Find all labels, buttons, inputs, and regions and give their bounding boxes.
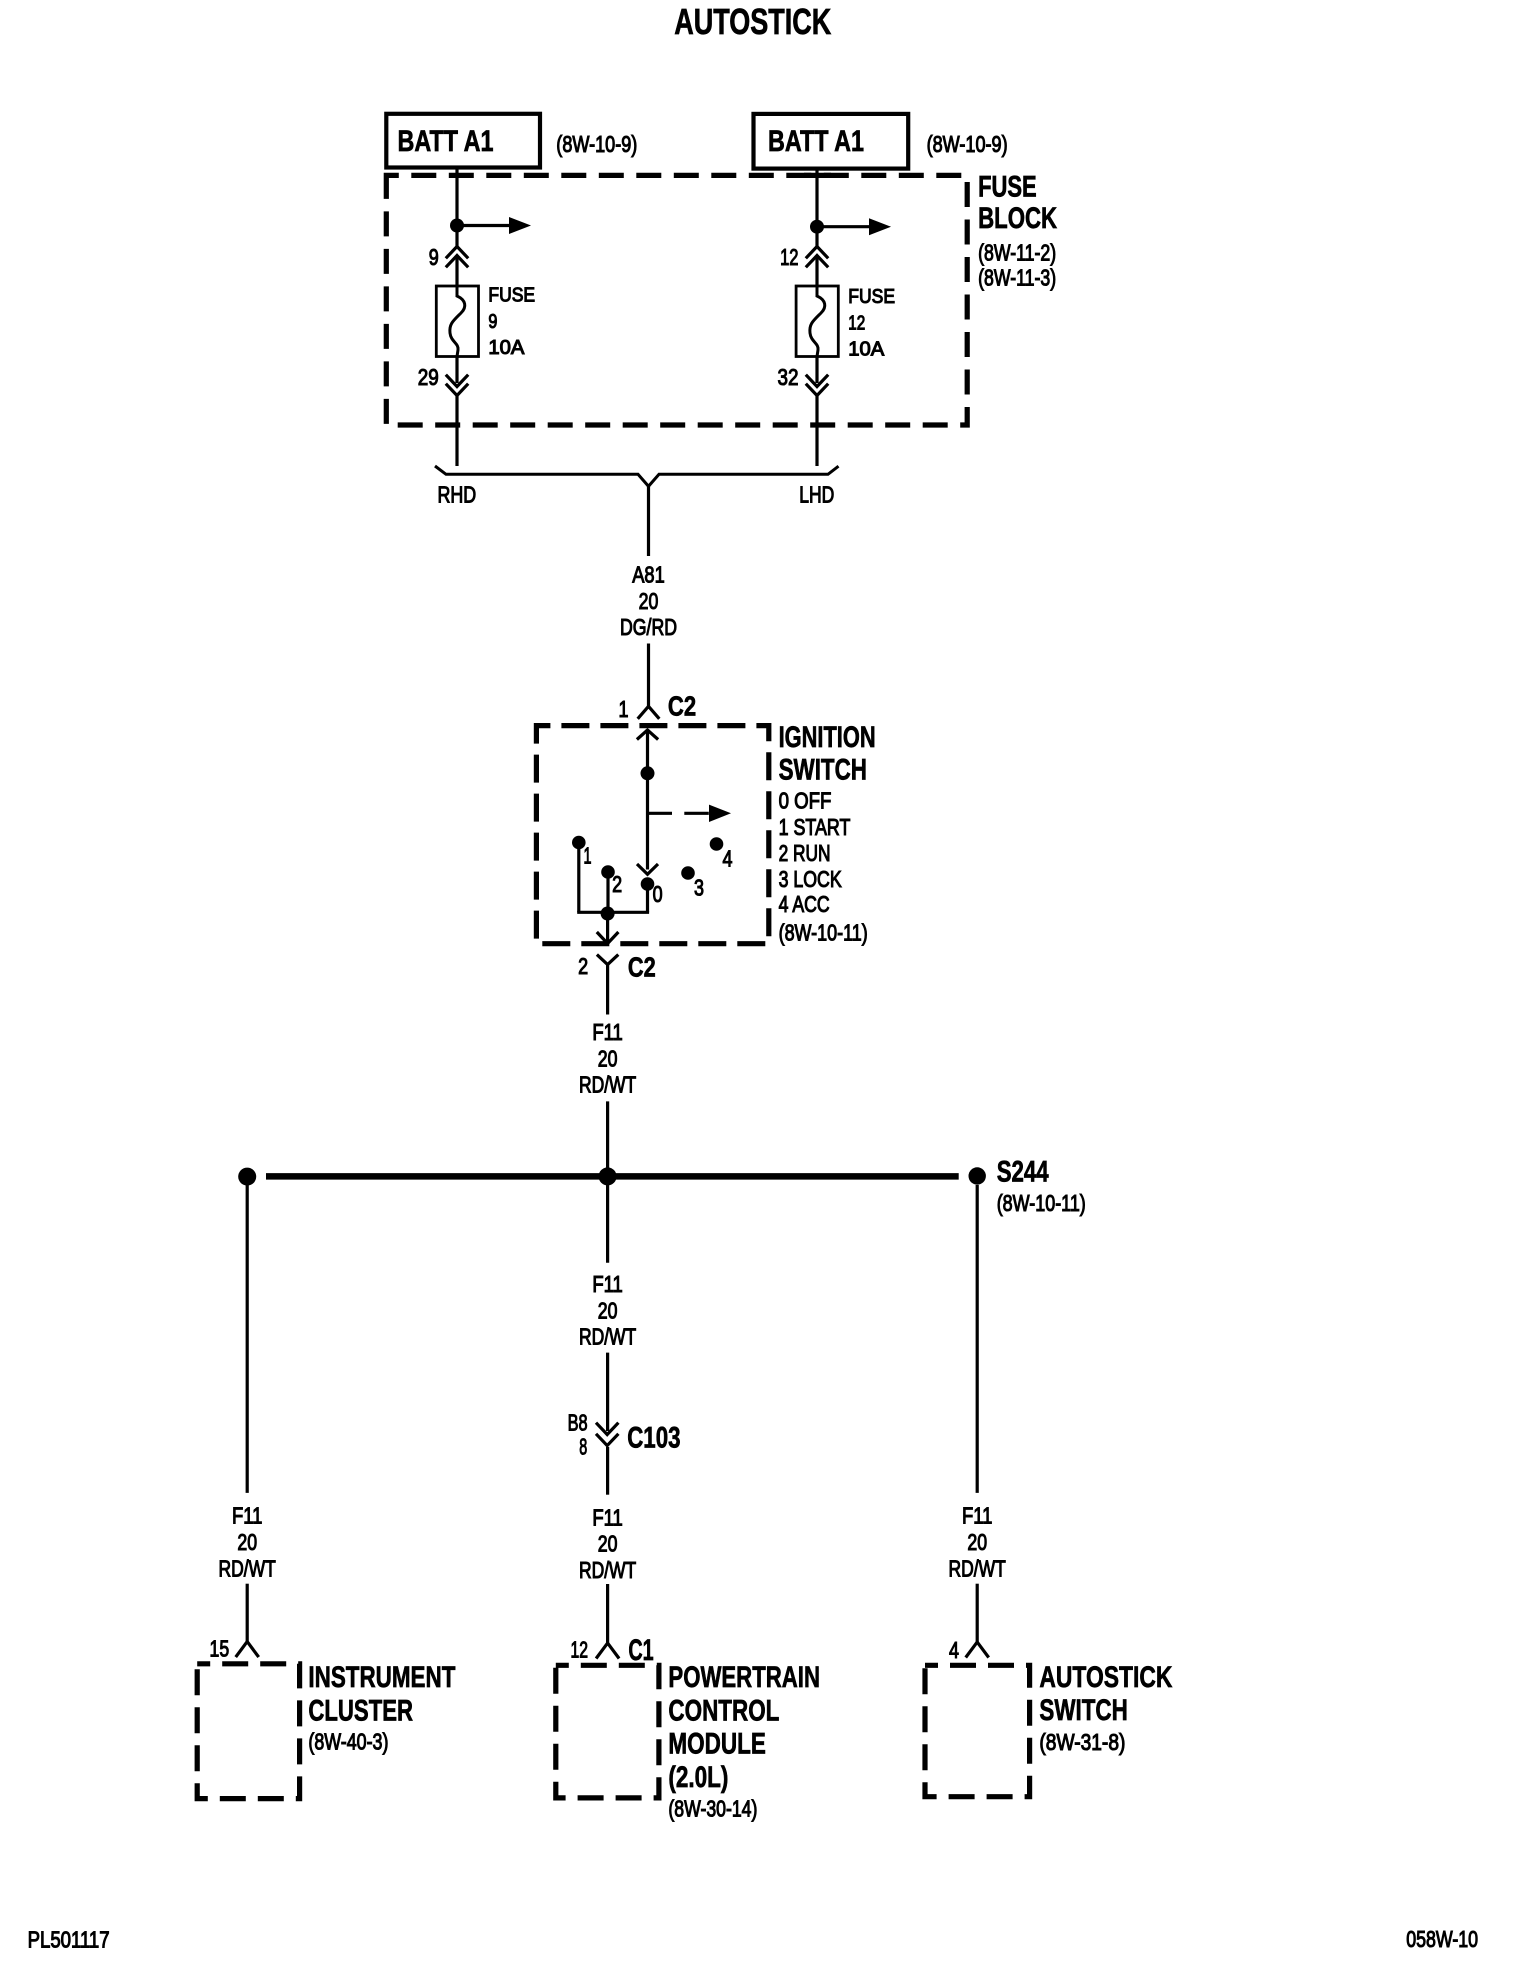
node ignition feed — [641, 766, 655, 780]
svg-text:10A: 10A — [488, 337, 525, 359]
wire brace to A81 — [647, 486, 650, 556]
svg-text:FUSE: FUSE — [978, 171, 1037, 204]
svg-text:12: 12 — [780, 244, 798, 270]
node junction right — [810, 220, 824, 234]
svg-text:RD/WT: RD/WT — [949, 1555, 1006, 1581]
svg-text:20: 20 — [598, 1045, 618, 1071]
connector chevrons pin 29 — [446, 375, 468, 387]
svg-text:3 LOCK: 3 LOCK — [779, 866, 843, 892]
svg-text:RD/WT: RD/WT — [579, 1072, 636, 1098]
connector fork pin 15 — [236, 1642, 259, 1658]
svg-text:3: 3 — [694, 875, 704, 901]
svg-text:20: 20 — [639, 588, 659, 614]
svg-text:(2.0L): (2.0L) — [668, 1761, 728, 1794]
svg-text:2 RUN: 2 RUN — [779, 840, 831, 866]
connector chevrons pin 32 — [806, 375, 828, 387]
connector C2 pin 2 fork — [597, 955, 618, 965]
svg-text:DG/RD: DG/RD — [620, 614, 677, 640]
wiper direction dashed arrow — [648, 812, 712, 815]
svg-text:S244: S244 — [997, 1155, 1049, 1188]
svg-text:(8W-10-11): (8W-10-11) — [997, 1190, 1086, 1216]
svg-text:8: 8 — [579, 1433, 587, 1459]
wire BATT A1 right to fuse 12 — [815, 169, 818, 246]
contact 3 — [681, 866, 695, 880]
autostick switch outline — [925, 1665, 1030, 1796]
wire to pin 12 C1 — [606, 1584, 609, 1643]
svg-text:FUSE: FUSE — [848, 286, 895, 308]
wire switch output bus — [577, 911, 649, 914]
wire fuse 9 to brace — [455, 357, 458, 384]
contact 1 — [572, 836, 586, 850]
connector fork pin 4 — [966, 1642, 989, 1658]
battery feed box BATT A1 (right) — [754, 114, 909, 169]
svg-text:LHD: LHD — [799, 482, 834, 508]
svg-text:10A: 10A — [848, 339, 885, 361]
svg-text:F11: F11 — [232, 1503, 263, 1529]
svg-text:(8W-40-3): (8W-40-3) — [308, 1728, 388, 1754]
svg-text:CONTROL: CONTROL — [668, 1694, 779, 1727]
wire contact 0 down — [646, 884, 649, 912]
svg-text:12: 12 — [848, 312, 865, 334]
svg-text:(8W-11-2): (8W-11-2) — [978, 239, 1056, 265]
svg-text:20: 20 — [237, 1529, 257, 1555]
connector C2 pin2 exit arrow — [606, 914, 609, 942]
wire contact 2 down — [606, 872, 609, 912]
svg-text:058W-10: 058W-10 — [1406, 1926, 1478, 1952]
fuse F9 body — [436, 286, 478, 357]
battery feed box BATT A1 (left) — [386, 114, 540, 168]
svg-text:F11: F11 — [592, 1504, 623, 1530]
wire BATT A1 left to fuse 9 — [455, 168, 458, 247]
svg-text:1: 1 — [584, 843, 592, 869]
svg-text:2: 2 — [612, 871, 622, 897]
wire fuse 12 to brace — [815, 357, 818, 384]
svg-text:(8W-31-8): (8W-31-8) — [1039, 1729, 1125, 1755]
svg-text:IGNITION: IGNITION — [779, 721, 876, 754]
wire F11 to splice S244 — [606, 1101, 609, 1173]
svg-text:C2: C2 — [628, 952, 656, 983]
svg-text:BATT A1: BATT A1 — [768, 125, 864, 158]
node splice left — [238, 1168, 256, 1186]
wire ignition feed — [646, 729, 649, 870]
wire to connector C103 — [606, 1353, 609, 1431]
svg-text:0: 0 — [653, 881, 663, 907]
connector fork pin 12 C1 — [596, 1643, 619, 1659]
svg-text:BLOCK: BLOCK — [978, 202, 1057, 235]
svg-text:32: 32 — [778, 364, 799, 390]
wire to pin 15 — [246, 1584, 249, 1642]
svg-text:F11: F11 — [962, 1503, 993, 1529]
svg-text:4: 4 — [949, 1637, 959, 1663]
svg-text:B8: B8 — [568, 1409, 588, 1435]
fuse block outline — [386, 175, 967, 425]
powertrain control module outline — [556, 1665, 659, 1798]
svg-text:(8W-11-3): (8W-11-3) — [978, 265, 1056, 291]
ignition switch outline — [536, 726, 768, 944]
wire splice to C103 — [606, 1176, 609, 1262]
svg-text:RHD: RHD — [438, 482, 477, 508]
connector chevrons pin 9 — [446, 247, 468, 259]
wire A81 to connector C2 — [647, 644, 650, 707]
svg-text:SWITCH: SWITCH — [1039, 1694, 1127, 1727]
connector C2 pin1 entry arrow — [637, 730, 658, 740]
svg-text:20: 20 — [967, 1529, 987, 1555]
svg-text:F11: F11 — [592, 1019, 623, 1045]
svg-text:A81: A81 — [632, 562, 665, 588]
instrument cluster outline — [197, 1664, 299, 1799]
svg-text:C103: C103 — [627, 1421, 680, 1454]
wire to pin 4 — [976, 1584, 979, 1642]
svg-text:CLUSTER: CLUSTER — [308, 1694, 413, 1727]
connector chevrons pin 12 — [806, 247, 828, 259]
svg-text:PL501117: PL501117 — [28, 1926, 110, 1952]
svg-text:4 ACC: 4 ACC — [779, 891, 830, 917]
svg-text:0 OFF: 0 OFF — [779, 788, 832, 814]
arrow tap left — [457, 224, 511, 227]
svg-text:4: 4 — [723, 845, 733, 871]
svg-text:AUTOSTICK: AUTOSTICK — [1039, 1661, 1172, 1694]
svg-text:9: 9 — [488, 311, 497, 333]
connector C2 pin 1 fork — [638, 706, 660, 719]
wiper arrowhead to contact 0 — [637, 864, 658, 874]
fuse F12 element — [810, 286, 825, 357]
svg-text:1: 1 — [619, 696, 629, 722]
fuse F9 element — [450, 286, 465, 357]
brace RHD/LHD — [435, 466, 839, 486]
svg-text:12: 12 — [571, 1637, 589, 1663]
svg-text:15: 15 — [210, 1635, 230, 1661]
contact 2 — [601, 865, 615, 879]
svg-text:MODULE: MODULE — [668, 1728, 766, 1761]
svg-text:RD/WT: RD/WT — [219, 1555, 276, 1581]
splice bus S244 — [266, 1173, 959, 1180]
fuse F12 body — [796, 286, 838, 357]
svg-text:C2: C2 — [668, 690, 696, 721]
contact 0 — [641, 877, 655, 891]
svg-text:RD/WT: RD/WT — [579, 1324, 636, 1350]
arrow tap right — [817, 225, 871, 228]
node junction left — [450, 219, 464, 233]
wire contact 1 down — [577, 843, 580, 913]
svg-text:SWITCH: SWITCH — [779, 753, 867, 786]
svg-text:1 START: 1 START — [779, 814, 851, 840]
node splice S244 — [969, 1167, 986, 1184]
svg-text:BATT A1: BATT A1 — [398, 125, 494, 158]
connector C103 chevrons — [596, 1423, 618, 1435]
svg-text:2: 2 — [578, 953, 588, 979]
node switch output — [601, 907, 615, 921]
wire splice to autostick switch — [976, 1185, 979, 1493]
svg-text:(8W-10-11): (8W-10-11) — [779, 919, 868, 945]
svg-text:INSTRUMENT: INSTRUMENT — [308, 1661, 455, 1694]
svg-text:(8W-10-9): (8W-10-9) — [927, 131, 1008, 157]
svg-text:RD/WT: RD/WT — [579, 1557, 636, 1583]
svg-text:C1: C1 — [628, 1634, 653, 1667]
svg-text:AUTOSTICK: AUTOSTICK — [674, 1, 831, 42]
node splice center — [599, 1167, 617, 1185]
wire C2 to F11 label — [606, 965, 609, 1015]
svg-text:29: 29 — [418, 364, 439, 390]
svg-text:20: 20 — [598, 1531, 618, 1557]
wire splice to instrument cluster — [246, 1185, 249, 1493]
svg-text:F11: F11 — [592, 1271, 623, 1297]
svg-text:(8W-10-9): (8W-10-9) — [556, 131, 637, 157]
svg-text:9: 9 — [429, 244, 439, 270]
contact 4 — [710, 837, 724, 851]
svg-text:FUSE: FUSE — [488, 285, 535, 307]
wire C103 to F11 label — [606, 1447, 609, 1495]
svg-text:POWERTRAIN: POWERTRAIN — [668, 1661, 820, 1694]
svg-text:20: 20 — [598, 1297, 618, 1323]
svg-text:(8W-30-14): (8W-30-14) — [668, 1796, 757, 1822]
